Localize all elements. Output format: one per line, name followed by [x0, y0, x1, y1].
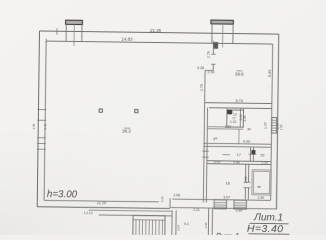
door dash wall 17/15 — [248, 153, 256, 155]
svg-text:2.59: 2.59 — [233, 161, 240, 165]
inner wall left — [44, 41, 46, 200]
door hatch room 13 — [227, 110, 232, 115]
chimney right flue line — [222, 24, 224, 47]
svg-text:18: 18 — [225, 181, 229, 185]
svg-text:15: 15 — [260, 153, 264, 157]
svg-text:1.99: 1.99 — [257, 196, 264, 200]
inner wall right — [271, 44, 273, 200]
bottom wall inner line full width — [44, 200, 159, 202]
door ticks room 18 — [244, 181, 251, 183]
svg-text:Лит.1: Лит.1 — [214, 231, 240, 235]
svg-text:Н=3.40: Н=3.40 — [247, 223, 284, 235]
step corner right of main bottom wall — [169, 198, 171, 207]
corridor bottom wall — [203, 142, 271, 145]
svg-text:2.76: 2.76 — [200, 84, 204, 91]
svg-text:38.3: 38.3 — [122, 128, 131, 133]
svg-text:38.8: 38.8 — [235, 71, 244, 76]
chimney left body — [65, 24, 67, 41]
svg-text:0.28: 0.28 — [197, 66, 204, 70]
annex left wall — [171, 210, 173, 237]
room 18 right wall — [245, 164, 247, 182]
door dash room17 radiator — [222, 154, 229, 156]
svg-text:вс: вс — [257, 185, 261, 189]
chimney right body — [211, 24, 213, 43]
svg-text:3.05: 3.05 — [32, 123, 36, 129]
outer wall bottom left part — [37, 207, 170, 209]
tick inner top right — [213, 41, 215, 46]
page corner shadow bottom-left — [0, 130, 170, 235]
room 38.8 left wall upper segment — [212, 43, 214, 54]
svg-text:0.25: 0.25 — [160, 196, 164, 202]
svg-text:2.76: 2.76 — [206, 51, 210, 58]
svg-text:17: 17 — [237, 153, 241, 157]
svg-text:5.55: 5.55 — [268, 70, 272, 77]
svg-text:11.25: 11.25 — [97, 201, 107, 205]
svg-text:1.2.13: 1.2.13 — [84, 211, 93, 215]
vent niche on right wall — [272, 118, 277, 134]
wall jog 0.28 — [205, 69, 213, 71]
cubicle left wall connector — [226, 108, 228, 110]
vent hatch room 15 — [251, 150, 255, 154]
annex bottom line right — [170, 208, 276, 209]
svg-text:2.06: 2.06 — [244, 176, 248, 183]
door pier hatch top of room 38.8 — [213, 42, 218, 49]
stair flight 1 — [214, 200, 227, 209]
column 2 — [135, 109, 138, 112]
rooms 17/15 bottom wall — [207, 160, 271, 163]
room 17 right wall — [249, 147, 251, 161]
door ticks room 17 left wall — [202, 150, 208, 152]
partition below cubicle — [238, 129, 240, 144]
svg-text:4.1: 4.1 — [184, 222, 189, 226]
stair flight 2 — [234, 200, 247, 209]
svg-text:h=3.00: h=3.00 — [47, 189, 78, 200]
left wall window ticks — [37, 109, 46, 111]
outer wall top — [40, 31, 279, 34]
svg-text:1.56: 1.56 — [243, 115, 247, 121]
svg-text:4.00: 4.00 — [243, 140, 250, 144]
room 8c box — [252, 170, 271, 195]
column 1 — [99, 109, 102, 112]
svg-text:3.97: 3.97 — [223, 195, 230, 199]
svg-text:21.35: 21.35 — [149, 28, 162, 33]
cubicle area bottom wall — [207, 126, 243, 128]
outer wall right — [276, 34, 278, 209]
door opening ticks room 38.8 — [211, 53, 215, 55]
svg-text:2.04: 2.04 — [176, 225, 180, 231]
svg-text:1.22: 1.22 — [230, 120, 237, 124]
svg-text:2.18: 2.18 — [207, 70, 214, 74]
room 38.8 left wall lower segment — [204, 70, 206, 102]
bottom wall right section inner line — [172, 199, 270, 200]
chimney left flue line — [73, 24, 75, 45]
svg-text:2.21: 2.21 — [193, 208, 200, 212]
annex inner wall — [207, 208, 209, 238]
cubicle inner wall line — [239, 108, 241, 127]
svg-text:1.55: 1.55 — [279, 124, 283, 130]
room 38.8 bottom wall — [205, 102, 272, 105]
svg-text:вс: вс — [248, 127, 252, 131]
chimney left cap — [66, 20, 83, 24]
svg-text:2.08: 2.08 — [173, 193, 180, 197]
chimney right cap — [211, 20, 233, 24]
tick on top wall left of chimney — [56, 28, 58, 34]
step strip below bottom wall — [89, 210, 172, 211]
outer wall left — [37, 31, 39, 207]
svg-text:2.40: 2.40 — [43, 123, 47, 129]
porch hatched — [133, 215, 165, 235]
wc cubicle room 13 — [227, 110, 244, 127]
tick inner top left — [45, 39, 47, 44]
svg-text:2.05: 2.05 — [204, 222, 208, 228]
svg-text:14.83: 14.83 — [121, 37, 133, 42]
dividing wall big room / right section — [203, 103, 204, 203]
inner wall top — [46, 41, 272, 44]
svg-text:1.77: 1.77 — [264, 122, 268, 129]
